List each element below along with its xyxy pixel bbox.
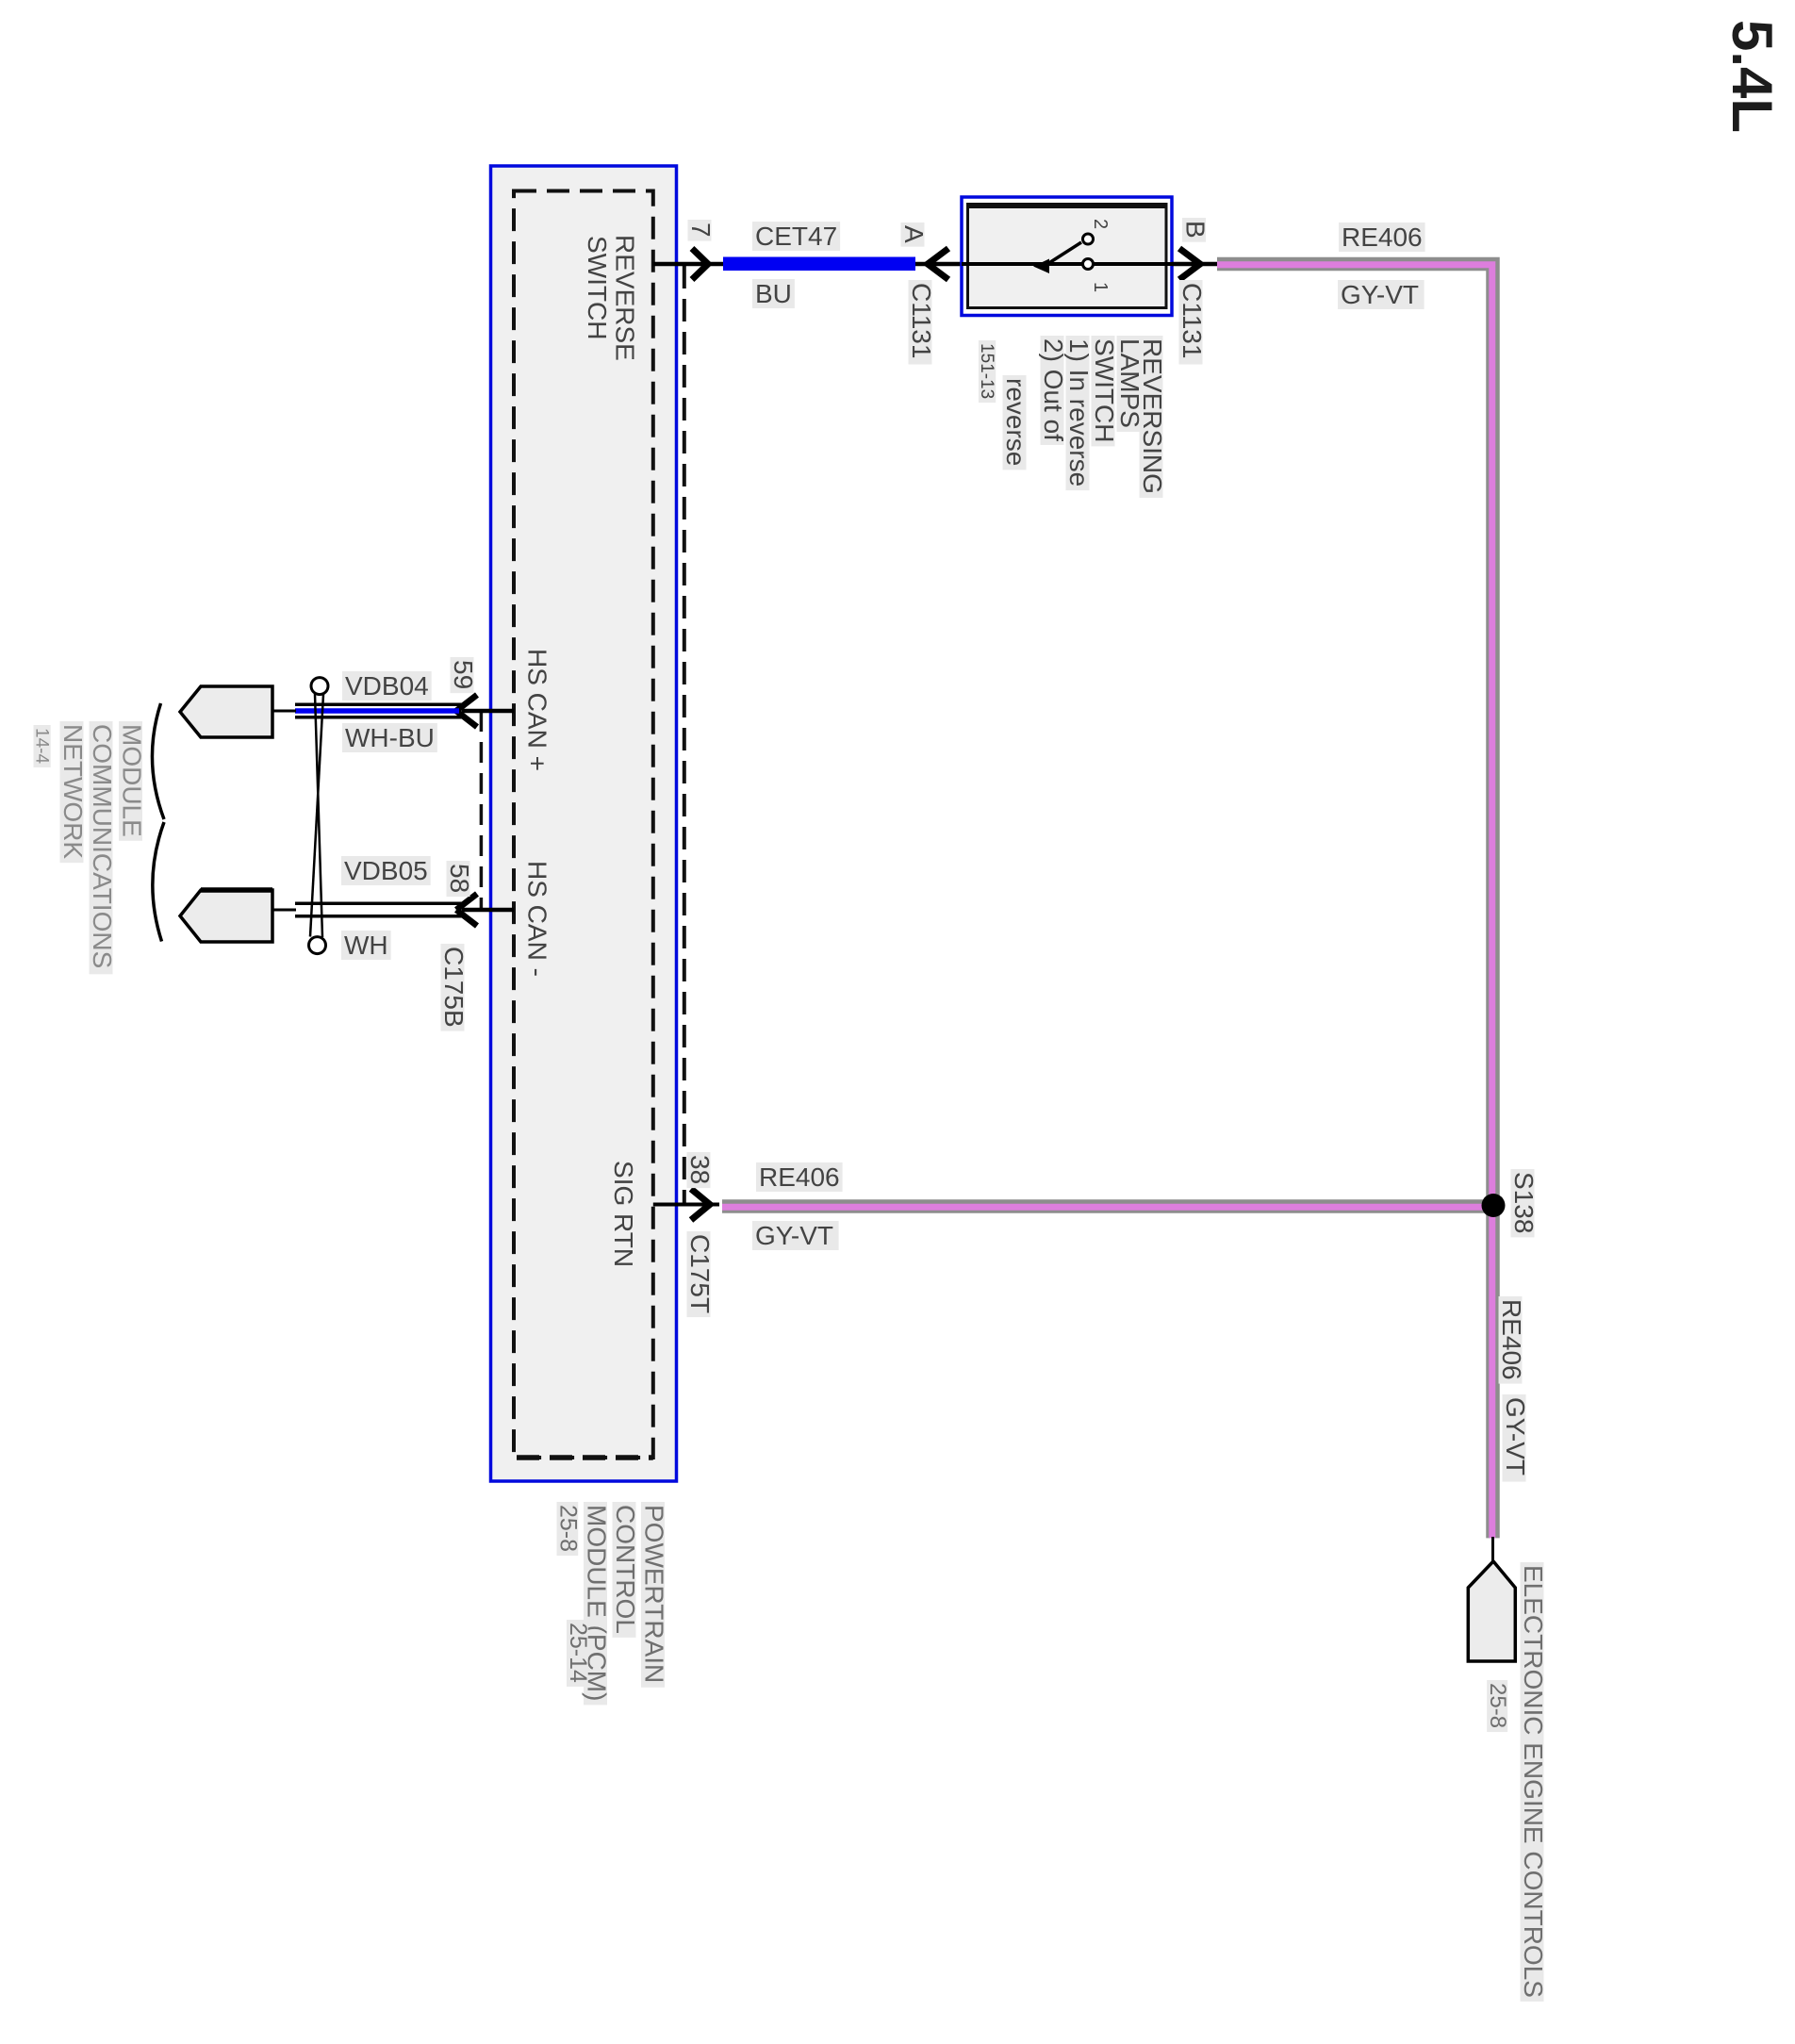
svg-text:2) Out of: 2) Out of [1039,338,1068,441]
svg-text:7: 7 [686,223,716,238]
svg-text:S138: S138 [1509,1172,1539,1233]
svg-text:SIG RTN: SIG RTN [609,1161,638,1267]
svg-text:RE406: RE406 [1497,1299,1526,1380]
svg-text:MODULE: MODULE [118,724,147,837]
svg-text:POWERTRAIN: POWERTRAIN [640,1505,669,1683]
svg-text:25-8: 25-8 [1485,1683,1510,1728]
svg-text:VDB05: VDB05 [344,856,428,885]
svg-text:CET47: CET47 [755,222,837,251]
svg-text:C1131: C1131 [907,283,936,358]
svg-text:NETWORK: NETWORK [58,724,88,859]
svg-text:C1131: C1131 [1177,283,1207,358]
svg-text:CONTROL: CONTROL [611,1505,640,1634]
svg-text:SWITCH: SWITCH [583,236,612,339]
svg-text:GY-VT: GY-VT [755,1221,833,1250]
svg-text:C175B: C175B [439,947,469,1028]
svg-text:RE406: RE406 [1342,223,1423,252]
svg-text:GY-VT: GY-VT [1341,280,1419,309]
svg-text:5.4L: 5.4L [1721,20,1784,133]
svg-text:151-13: 151-13 [977,343,996,399]
svg-text:VDB04: VDB04 [345,671,429,701]
svg-text:ELECTRONIC ENGINE CONTROLS: ELECTRONIC ENGINE CONTROLS [1519,1565,1548,1998]
svg-text:RE406: RE406 [759,1162,840,1192]
svg-text:BU: BU [755,279,792,308]
svg-text:reverse: reverse [1001,378,1030,466]
svg-text:2: 2 [1090,219,1111,229]
svg-text:25-14: 25-14 [565,1623,591,1683]
svg-text:GY-VT: GY-VT [1501,1397,1530,1475]
svg-text:WH-BU: WH-BU [345,723,435,752]
svg-text:HS CAN +: HS CAN + [523,649,552,771]
svg-text:C175T: C175T [685,1234,715,1313]
svg-text:38: 38 [685,1155,715,1184]
svg-text:REVERSE: REVERSE [611,235,640,361]
svg-text:B: B [1181,221,1210,239]
svg-text:HS CAN -: HS CAN - [523,861,552,977]
svg-text:14-4: 14-4 [32,728,52,764]
svg-text:A: A [899,225,929,243]
svg-text:25-8: 25-8 [555,1505,582,1552]
svg-text:59: 59 [449,660,478,689]
svg-text:WH: WH [344,931,388,960]
svg-text:COMMUNICATIONS: COMMUNICATIONS [88,724,117,968]
svg-text:58: 58 [445,864,474,893]
svg-text:1: 1 [1090,282,1111,292]
